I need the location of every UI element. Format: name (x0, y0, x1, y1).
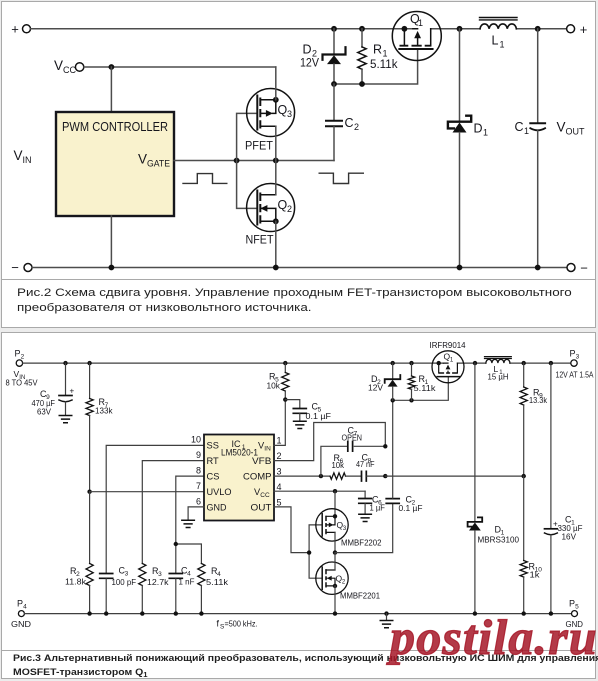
junction PWM/bottom rail (109, 265, 115, 271)
junction C1/top rail (535, 26, 541, 32)
wire top rail to output (431, 28, 567, 30)
capacitor C1 (polarized) (545, 363, 559, 613)
svg-text:2: 2 (21, 354, 25, 361)
capacitor C2 (326, 84, 342, 161)
caption figure 3 (13, 652, 598, 679)
svg-text:1: 1 (524, 126, 529, 136)
svg-text:5.11k: 5.11k (370, 59, 398, 71)
resistor R1 (358, 29, 366, 84)
ground (C9) (59, 416, 72, 423)
junction R7/top rail (87, 361, 91, 365)
capacitor C1 (530, 29, 545, 268)
label R6 10k (332, 453, 345, 470)
junction R1/top rail (409, 361, 413, 365)
svg-text:1k: 1k (530, 570, 541, 580)
svg-text:+: + (11, 22, 19, 37)
svg-text:11.8k: 11.8k (65, 577, 87, 587)
svg-text:12V: 12V (300, 58, 319, 70)
capacitor C4 (169, 574, 182, 614)
wire bottom rail (32, 267, 567, 269)
svg-text:133k: 133k (95, 406, 113, 416)
wire D2 to gate node (333, 64, 335, 84)
node P2 VIN terminal (6, 349, 39, 388)
svg-text:IN: IN (23, 155, 32, 165)
svg-text:OUT: OUT (251, 503, 272, 513)
svg-text:NFET: NFET (246, 235, 274, 247)
wire driver gate bracket (309, 525, 322, 578)
resistor R10 (520, 476, 527, 613)
divider under schematic 3 (1, 650, 595, 651)
node + output terminal (top right) (567, 22, 588, 37)
svg-text:PWM CONTROLLER: PWM CONTROLLER (62, 120, 168, 134)
wire RT to R3 (142, 461, 204, 564)
wire VFB node to divider (385, 475, 523, 477)
svg-text:13.3k: 13.3k (529, 395, 548, 405)
capacitor C5 (285, 400, 306, 421)
junction R1/gate node (359, 81, 365, 87)
wire Q3 drain to VGATE (275, 126, 277, 160)
junction R10/GND rail (522, 611, 526, 615)
svg-text:63V: 63V (37, 407, 51, 417)
resistor R2 (86, 492, 93, 614)
wire D1 to GND rail (474, 531, 476, 614)
wire C8 to VFB node (367, 475, 386, 477)
svg-text:8: 8 (196, 466, 201, 476)
wire VCC to PWM controller (110, 67, 112, 112)
svg-text:IN: IN (264, 446, 271, 453)
svg-text:GATE: GATE (147, 159, 170, 169)
svg-text:5.11k: 5.11k (206, 577, 229, 587)
junction C9/top rail (63, 361, 67, 365)
label R4 5.11k (206, 566, 229, 587)
node - input terminal (bottom left) (11, 260, 32, 275)
label VIN (14, 148, 32, 165)
junction R5/top rail (283, 361, 287, 365)
svg-text:2: 2 (287, 204, 292, 214)
wire VIN pin to R5 (274, 400, 285, 446)
junction ground stub/GND rail (384, 611, 388, 615)
waveform inverted pulse (gate node) (319, 173, 363, 183)
svg-text:D: D (474, 122, 483, 136)
inductor L1 (480, 18, 518, 29)
node P5 GND terminal (566, 599, 584, 630)
junction C3/bottom rail (104, 611, 108, 615)
wire Q2 drain to output node (334, 553, 336, 570)
label C9 470uF 63V (32, 389, 56, 417)
junction D1/bottom rail (457, 265, 463, 271)
svg-text:1: 1 (450, 358, 454, 364)
svg-text:9: 9 (196, 450, 201, 460)
wire top rail VIN (31, 28, 413, 30)
svg-text:1: 1 (483, 128, 488, 138)
wire driver output to C2 (335, 504, 393, 553)
junction VCC/Q3 source (333, 489, 337, 493)
svg-text:UVLO: UVLO (207, 487, 232, 497)
junction D1/GND rail (473, 611, 477, 615)
junction R5/VIN/C5 (283, 397, 287, 401)
junction VCC/PWM (109, 64, 115, 70)
svg-text:5.11k: 5.11k (414, 383, 437, 393)
junction Q2/GND rail (333, 611, 337, 615)
divider under schematic 2 (1, 279, 595, 280)
junction R9/top rail (522, 361, 526, 365)
svg-text:3: 3 (576, 354, 580, 361)
wire gate node (334, 49, 418, 84)
label R3 12.7k (147, 566, 169, 587)
node - output terminal (bottom right) (567, 261, 588, 276)
wire GND pin to ground (188, 507, 204, 520)
transistor Q2 MMBF2201 (316, 562, 348, 594)
svg-text:COMP: COMP (243, 472, 272, 482)
junction switch node (473, 361, 477, 365)
label R2 11.8k (65, 566, 87, 587)
label L1 (492, 34, 505, 50)
svg-text:0.1 µF: 0.1 µF (399, 503, 423, 513)
resistor R1 (408, 363, 414, 400)
svg-text:100 pF: 100 pF (112, 577, 137, 587)
junction OUT/bracket (307, 550, 311, 554)
junction C1/GND rail (549, 611, 553, 615)
junction D1/top rail (457, 26, 463, 32)
svg-text:SS: SS (207, 441, 219, 451)
label R9 13.3k (529, 388, 548, 406)
transistor Q2 NFET (247, 184, 295, 232)
diode D1 schottky (448, 116, 471, 133)
node P3 12V output terminal (556, 349, 595, 380)
wire Q3 drain to output node (334, 532, 336, 552)
capacitor C6 (359, 491, 372, 513)
svg-text:0.1 µF: 0.1 µF (306, 411, 332, 421)
resistor R4 (198, 564, 205, 614)
figure 2 panel (1, 1, 596, 328)
svg-text:−: − (580, 261, 588, 276)
diode D1 MBRS3100 schottky (468, 517, 483, 530)
junction C8/VFB node (383, 474, 387, 478)
wire gate bracket (237, 113, 257, 208)
svg-text:47 nF: 47 nF (356, 459, 375, 469)
junction Q2 source/bottom rail (273, 265, 279, 271)
node P4 GND terminal (11, 599, 31, 630)
capacitor C8 (362, 471, 367, 481)
wire D1 to bottom rail (459, 133, 461, 268)
label R1 5.11k (414, 374, 437, 393)
zener D2 (323, 47, 346, 64)
svg-text:MBRS3100: MBRS3100 (478, 535, 520, 545)
svg-text:15 µH: 15 µH (488, 372, 509, 382)
svg-text:1: 1 (383, 49, 388, 59)
svg-text:MMBF2202: MMBF2202 (341, 538, 382, 548)
junction VGATE/gate bracket (234, 158, 240, 164)
wire top rail output (457, 362, 486, 364)
junction D2/gate node (331, 81, 337, 87)
junction D2/top rail (331, 26, 337, 32)
capacitor C7 (OPEN) (321, 442, 385, 477)
transistor Q3 MMBF2202 (316, 509, 348, 541)
svg-text:12.7k: 12.7k (147, 577, 169, 587)
resistor R6 (330, 473, 346, 479)
PWM controller block (56, 112, 174, 216)
junction R2/bottom rail (87, 611, 91, 615)
svg-text:V: V (54, 58, 63, 73)
wire top rail VIN (23, 362, 444, 364)
svg-text:+: + (580, 22, 588, 37)
junction divider/VFB (522, 474, 526, 478)
junction COMP/C7 branch (319, 474, 323, 478)
node VCC terminal (54, 58, 84, 75)
label C6 1uF (370, 495, 386, 513)
wire VCC to Q3 (334, 491, 336, 516)
svg-text:−: − (11, 260, 19, 275)
label R10 1k (529, 562, 543, 580)
junction CS/C4 (174, 542, 178, 546)
junction C4/bottom rail (174, 611, 178, 615)
svg-text:6: 6 (196, 497, 201, 507)
wire OUT to driver gates (274, 507, 309, 553)
wire Q2 source to bottom rail (275, 221, 277, 267)
svg-text:8 TO 45V: 8 TO 45V (6, 379, 39, 388)
svg-text:16V: 16V (562, 532, 577, 542)
junction R3/bottom rail (140, 611, 144, 615)
resistor R5 (282, 363, 289, 400)
node + input terminal (top left) (11, 22, 30, 37)
svg-text:+: + (70, 387, 75, 396)
resistor R9 (520, 363, 527, 476)
junction R1/gate node (409, 398, 413, 402)
junction C1/bottom rail (535, 265, 541, 271)
label C1 330uF 16V (558, 515, 583, 542)
ground (GND rail) (386, 614, 388, 620)
svg-text:1: 1 (277, 436, 282, 446)
wire VFB route (274, 423, 385, 461)
wire gate node (393, 377, 449, 400)
svg-text:1 nF: 1 nF (179, 577, 195, 587)
svg-text:R: R (373, 43, 382, 57)
svg-text:4: 4 (23, 604, 27, 611)
svg-text:2: 2 (277, 451, 282, 461)
junction UVLO node (87, 490, 91, 494)
svg-text:MMBF2201: MMBF2201 (340, 591, 380, 601)
zener D2 (385, 363, 401, 400)
svg-text:7: 7 (196, 481, 201, 491)
svg-text:V: V (138, 152, 147, 167)
svg-text:PFET: PFET (245, 141, 273, 153)
svg-text:CC: CC (260, 492, 270, 499)
svg-text:V: V (557, 120, 566, 135)
label C4 1nF (179, 566, 195, 587)
transistor Q3 PFET (247, 89, 295, 137)
label C7 OPEN (342, 426, 363, 443)
label C5 0.1uF (306, 402, 332, 422)
label C8 47nF (356, 453, 375, 470)
wire COMP (274, 475, 330, 477)
capacitor C9 (polarized) (59, 363, 75, 415)
junction C7/VFB node (383, 444, 387, 448)
wire VGATE net (174, 160, 334, 162)
transistor Q1 (392, 12, 441, 61)
waveform pulse (PWM output) (183, 174, 227, 184)
label R5 10k (267, 372, 281, 391)
svg-text:OPEN: OPEN (342, 433, 363, 443)
svg-text:GND: GND (207, 503, 227, 513)
wire rail to D1 (459, 29, 461, 122)
label C3 100pF (112, 566, 137, 588)
junction R1/top rail (359, 26, 365, 32)
svg-text:10k: 10k (267, 381, 281, 391)
op-amp IC1 LM5020-1 (204, 435, 274, 521)
label R7 133k (95, 397, 113, 416)
label D2 12V (368, 374, 383, 393)
svg-text:5: 5 (277, 498, 282, 508)
wire CS node (176, 476, 204, 573)
transistor Q1 IRFR9014 (432, 351, 464, 383)
wire Q2 source to GND rail (334, 586, 336, 614)
label C2 0.1uF (399, 495, 423, 514)
ground (C6) (359, 514, 372, 521)
svg-text:CS: CS (207, 472, 220, 482)
label C1 (515, 120, 530, 136)
junction driver output (333, 550, 337, 554)
label VOUT (557, 120, 586, 137)
capacitor C3 (100, 574, 113, 614)
svg-text:2: 2 (354, 122, 359, 132)
figure 3 panel (1, 332, 596, 679)
resistor R3 (139, 564, 146, 614)
wire R6 to C8 (346, 475, 362, 477)
wire PWM bottom to rail (110, 216, 112, 268)
svg-text:V: V (14, 148, 23, 163)
svg-text:3: 3 (277, 467, 282, 477)
wire Q3 source to VCC (275, 67, 277, 100)
svg-text:3: 3 (287, 109, 292, 119)
label C2 (345, 116, 360, 132)
watermark (390, 608, 598, 666)
svg-text:10k: 10k (332, 460, 345, 470)
svg-text:RT: RT (207, 456, 220, 466)
wire bottom rail GND (25, 613, 572, 615)
svg-text:C: C (515, 120, 524, 134)
ground (C5) (294, 421, 307, 428)
label D2 12V (300, 43, 319, 70)
svg-text:IRFR9014: IRFR9014 (430, 340, 466, 350)
svg-text:1: 1 (418, 18, 423, 28)
svg-text:2: 2 (342, 580, 346, 586)
svg-text:CC: CC (63, 65, 76, 75)
junction C1/top rail (549, 361, 553, 365)
svg-text:1: 1 (500, 40, 505, 50)
capacitor C2 (386, 400, 399, 503)
wire VCC rail (84, 66, 276, 68)
svg-text:L: L (492, 34, 499, 48)
inductor L1 (485, 357, 512, 364)
ground (IC GND pin) (182, 520, 195, 527)
wire rail to D2 (333, 29, 335, 54)
svg-text:10: 10 (191, 435, 201, 445)
svg-text:GND: GND (11, 619, 31, 629)
caption figure 2 (17, 286, 598, 316)
label R1 5.11k (370, 43, 398, 72)
label fS=500 kHz (217, 619, 258, 631)
svg-text:=500 kHz.: =500 kHz. (225, 619, 258, 629)
svg-text:OUT: OUT (566, 127, 586, 137)
junction D2/gate node (391, 398, 395, 402)
wire UVLO to IC (90, 491, 204, 493)
label D1 (474, 122, 489, 138)
svg-text:Q: Q (278, 198, 288, 212)
wire switch node to D1 (474, 363, 476, 521)
svg-text:4: 4 (277, 482, 282, 492)
svg-text:Q: Q (278, 103, 288, 117)
label D1 MBRS3100 (478, 525, 520, 545)
resistor R7 (86, 363, 93, 492)
svg-text:C: C (345, 116, 354, 130)
wire VCC pin to C6 (274, 490, 365, 492)
svg-text:12V: 12V (368, 383, 383, 393)
svg-text:1 µF: 1 µF (370, 503, 386, 513)
junction D2/top rail (391, 361, 395, 365)
junction R4/bottom rail (199, 611, 203, 615)
wire Q2 drain to VGATE (275, 161, 277, 195)
svg-text:D: D (303, 43, 312, 57)
wire SS to C3 (106, 445, 204, 573)
svg-text:12V AT 1.5A: 12V AT 1.5A (556, 371, 595, 380)
junction VGATE/FET drains (273, 158, 279, 164)
label L1 15uH (488, 364, 509, 382)
svg-text:VFB: VFB (252, 456, 272, 466)
